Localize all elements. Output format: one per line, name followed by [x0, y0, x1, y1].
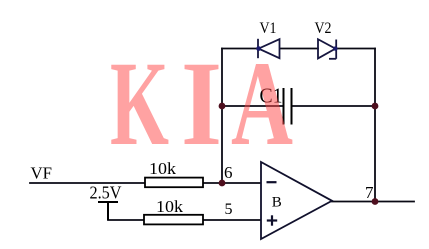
resistor R1 10k: [145, 178, 203, 188]
svg-text:VF: VF: [31, 163, 53, 182]
diode V1: [258, 39, 280, 58]
wire right vertical: [374, 49, 376, 202]
svg-text:K: K: [110, 37, 169, 171]
op-amp minus input sign: [267, 181, 277, 183]
wire 2.5V to R2: [108, 219, 144, 221]
capacitor C1: [284, 88, 292, 125]
svg-text:5: 5: [225, 201, 233, 218]
junction at V1 anode: [256, 46, 261, 51]
wire left vertical: [221, 49, 223, 184]
junction at V2 cathode: [333, 46, 337, 50]
wire op-amp output: [332, 201, 414, 203]
wire R1 to op-amp: [203, 182, 261, 184]
op-amp plus input sign: [267, 215, 277, 225]
node 7 junction dot: [372, 198, 379, 205]
svg-text:V1: V1: [260, 20, 277, 37]
resistor R2 10k: [144, 215, 203, 225]
node 6 junction dot: [219, 180, 226, 187]
svg-text:A: A: [231, 37, 293, 171]
svg-text:2.5V: 2.5V: [90, 183, 122, 203]
wire between diodes: [280, 48, 318, 50]
svg-text:V2: V2: [315, 20, 332, 37]
watermark KIA: [110, 37, 293, 171]
node junction dot (left, C1 wire): [219, 103, 226, 110]
svg-text:10k: 10k: [156, 197, 184, 216]
wire capacitor right: [292, 105, 376, 107]
wire R2 to op-amp: [203, 219, 261, 221]
op-amp B: [261, 162, 332, 239]
svg-text:B: B: [272, 195, 282, 211]
wire top-left segment: [222, 48, 258, 50]
wire capacitor left: [222, 105, 284, 107]
2.5V source terminal: [98, 202, 118, 220]
wire VF input: [30, 182, 145, 184]
node junction dot (right, C1 wire): [372, 103, 379, 110]
svg-text:I: I: [181, 37, 222, 171]
diode V2: [318, 39, 336, 59]
wire top-right segment: [336, 48, 375, 50]
